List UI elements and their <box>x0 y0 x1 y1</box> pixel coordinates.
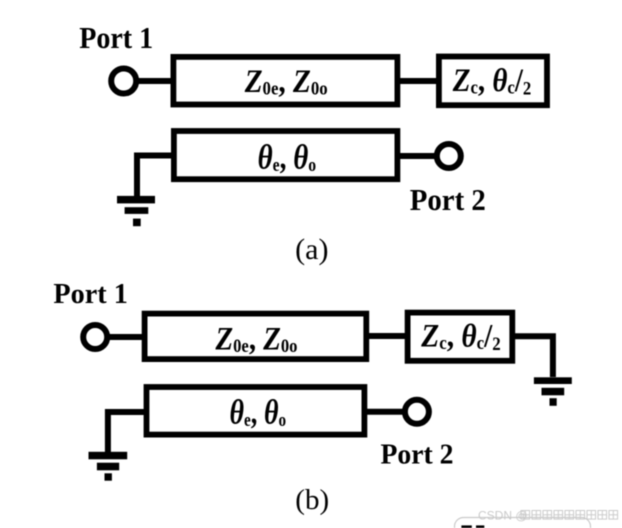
ground symbol right (fig b) <box>534 377 572 406</box>
coupled line box theta_e,theta_o (fig b) <box>147 387 365 435</box>
watermark badge frame <box>455 518 591 528</box>
svg-text:θe, θo: θe, θo <box>230 393 287 432</box>
watermark CJK glyph placeholders <box>521 511 618 520</box>
svg-text:Zc, θc/2: Zc, θc/2 <box>420 318 500 355</box>
coupled line box theta_e,theta_o (fig a) <box>174 131 398 179</box>
svg-text:Port 2: Port 2 <box>410 182 486 217</box>
wire Zc box to right ground (fig b) <box>512 336 553 377</box>
svg-text:CSDN @: CSDN @ <box>478 509 528 523</box>
port terminal P2b <box>405 400 429 424</box>
svg-text:θe, θo: θe, θo <box>258 138 317 177</box>
svg-text:Port 2: Port 2 <box>381 439 454 471</box>
svg-text:(b): (b) <box>295 484 329 516</box>
wire coupled box to P2a <box>397 153 437 159</box>
port terminal P2a <box>437 144 461 168</box>
ground symbol (fig a) <box>117 196 155 226</box>
port terminal P1a <box>111 69 136 94</box>
coupled line box Z0e,Z0o (fig a) <box>173 57 397 105</box>
port terminal P1b <box>83 325 107 349</box>
svg-text:Zc, θc/2: Zc, θc/2 <box>452 63 531 100</box>
ground symbol left (fig b) <box>89 452 128 481</box>
transmission line box Zc (fig a) <box>439 57 547 106</box>
transmission line box Zc (fig b) <box>408 313 513 361</box>
wire ground stub left (fig b) <box>108 412 147 455</box>
svg-text:(a): (a) <box>295 233 328 266</box>
wire coupled box to P2b <box>366 409 405 415</box>
wire coupled box to Zc box (fig b) <box>366 333 410 339</box>
wire P1a to coupled-line box <box>137 78 174 84</box>
wire ground stub (fig a) <box>137 156 174 200</box>
wire P1b to coupled-line box <box>108 334 145 340</box>
wire coupled box to Zc box (fig a) <box>397 78 442 84</box>
svg-text:Port 1: Port 1 <box>79 20 153 55</box>
svg-text:Port 1: Port 1 <box>53 278 128 310</box>
cropped bold text marks bottom edge <box>461 525 471 528</box>
coupled line box Z0e,Z0o (fig b) <box>145 314 367 360</box>
